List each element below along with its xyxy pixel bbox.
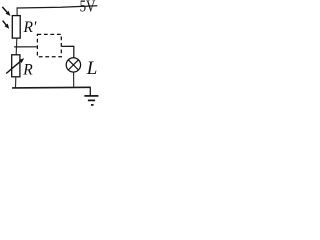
rheostat arrow: [6, 58, 24, 73]
light arrow 2: [3, 21, 10, 29]
wire lamp to bottom rail: [73, 72, 75, 87]
wire control box to lamp: [62, 46, 74, 58]
svg-text:R': R': [23, 19, 37, 36]
wire R bottom to ground rail: [15, 77, 17, 88]
rheostat R body: [12, 55, 20, 77]
wire bottom rail: [12, 86, 91, 89]
light arrow 1: [2, 7, 10, 16]
lamp L symbol: [66, 58, 80, 72]
control box (dashed): [37, 34, 61, 56]
svg-text:R: R: [22, 61, 33, 78]
node junction to control box: [14, 46, 37, 48]
svg-text:L: L: [86, 58, 98, 79]
ground: [84, 88, 98, 105]
wire top 5V rail: [17, 6, 97, 8]
wire R' bottom to junction to R top: [15, 38, 18, 55]
photoresistor R' body: [12, 16, 20, 38]
wire rail to R' top: [16, 7, 18, 16]
svg-text:5V: 5V: [80, 0, 96, 16]
